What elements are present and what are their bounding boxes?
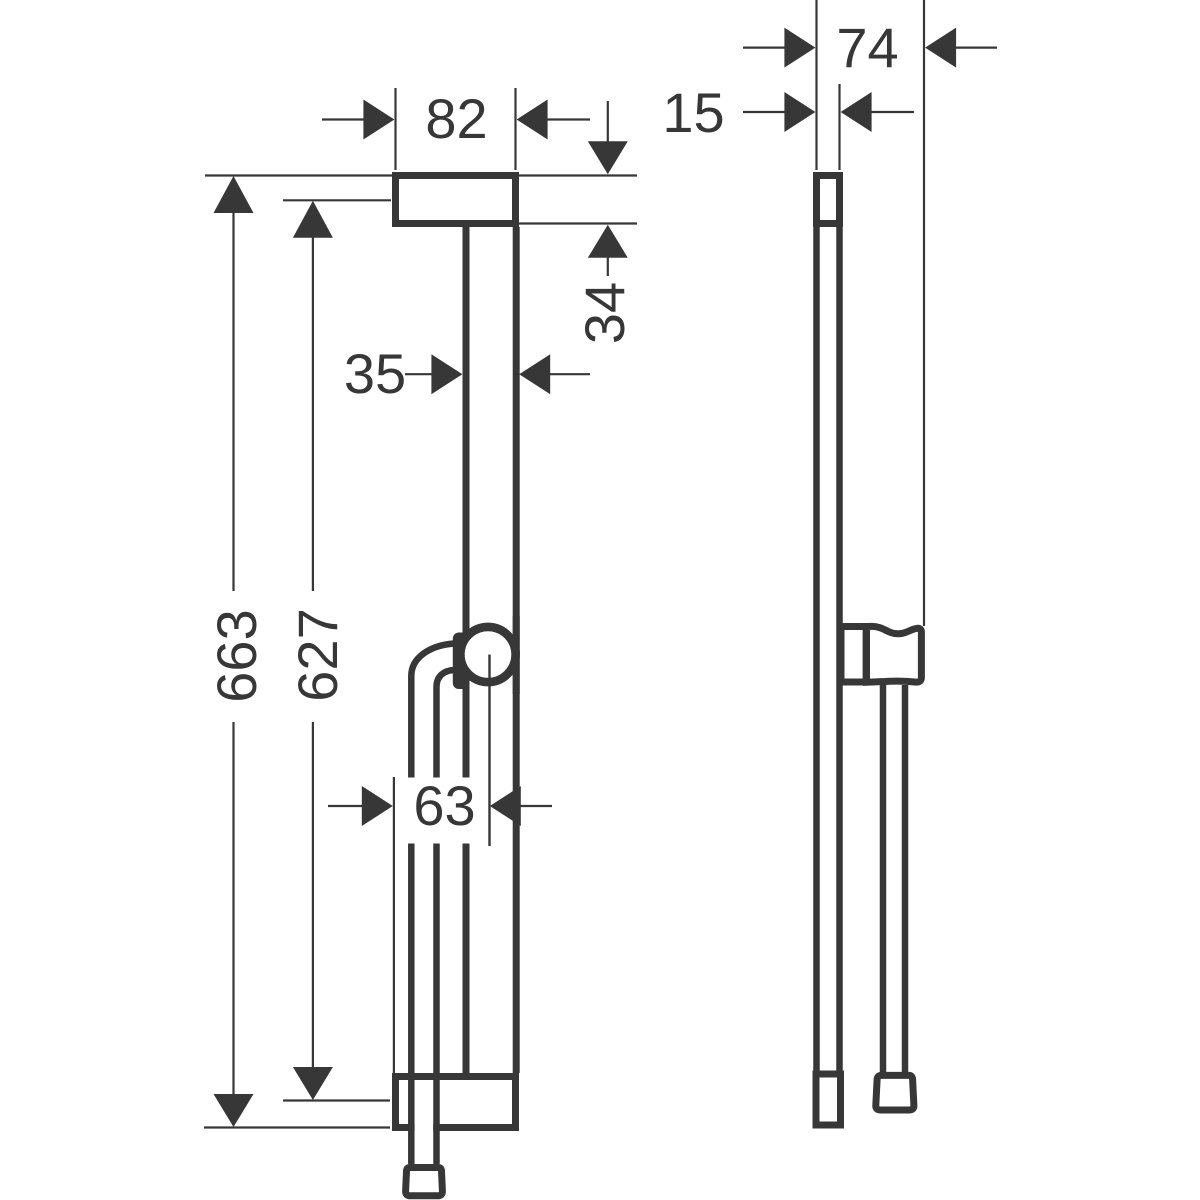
dim 63 extension left <box>393 777 395 1073</box>
svg-text:627: 627 <box>286 608 349 701</box>
rail left edge (front) <box>463 227 470 1073</box>
rail right edge over ring <box>513 616 520 694</box>
top bracket (side) <box>817 176 840 224</box>
svg-text:34: 34 <box>573 282 636 344</box>
dim 82 extension left <box>394 88 396 170</box>
dim 74 left arrow <box>743 46 787 48</box>
bottom bracket (side) <box>816 1074 841 1125</box>
bottom bracket (front) <box>396 1077 516 1128</box>
dim 663 extension top <box>205 174 392 176</box>
dim 82 extension right <box>514 88 516 170</box>
svg-text:82: 82 <box>425 87 487 150</box>
hose left wall (side) <box>880 685 887 1073</box>
hose outer wall (front) <box>411 644 454 1165</box>
dimension texts <box>205 16 899 837</box>
rail right edge (front) <box>513 227 520 1073</box>
dim 663 extension bottom <box>204 1126 390 1128</box>
bottom bracket top edge redrawn over hose <box>392 1073 519 1080</box>
svg-text:74: 74 <box>836 16 898 79</box>
slider clamp inner edge (side) <box>863 623 871 686</box>
dim 82 left arrow <box>322 118 366 120</box>
svg-text:63: 63 <box>413 774 475 837</box>
hose end connector (front) <box>406 1168 443 1196</box>
rail front face (side) <box>813 227 820 1071</box>
dim 34 bottom arrow <box>607 253 609 276</box>
hose end connector (side) <box>876 1075 914 1110</box>
hose right wall (side) <box>902 685 909 1073</box>
dim 63 right arrow <box>519 805 552 807</box>
dim 74 extension left <box>815 0 817 170</box>
slider clamp (front) <box>453 633 468 690</box>
dim 15 right arrow <box>869 111 914 113</box>
dim 35 left arrow <box>405 373 434 375</box>
dim 663 line and arrows <box>214 176 254 213</box>
slider clamp (side) <box>841 627 867 683</box>
dim 34 extension top <box>519 174 637 176</box>
handle centre line (front) <box>488 655 490 847</box>
dim 34 extension bottom <box>519 222 637 224</box>
front view: wall bar with slider and hose <box>396 176 517 1128</box>
dim 74 extension right <box>923 0 925 626</box>
dim 627 extension top <box>283 199 391 201</box>
dim 82 right arrow <box>545 118 590 120</box>
dim 63 left arrow <box>328 805 364 807</box>
top bracket (front) <box>396 176 516 224</box>
hose inner wall (front) <box>437 670 455 1164</box>
dim 627 line and arrows <box>293 201 333 238</box>
dim 34 top arrow <box>607 101 609 146</box>
slider handle (side) <box>867 626 922 682</box>
slider handle ring (front) <box>460 627 515 682</box>
dim 35 right arrow <box>548 373 590 375</box>
dim 74 extension mid <box>838 84 840 170</box>
side view: bar profile, slider, hose <box>816 176 841 1126</box>
rail back face (side) <box>836 227 843 1071</box>
dim 74 right arrow <box>953 46 997 48</box>
white gap in rails and hose for 63 dimension band <box>402 778 477 844</box>
dim 627 extension bottom <box>283 1099 390 1101</box>
hose (front): white tube body crossing bottom bracket <box>415 690 434 1164</box>
svg-text:663: 663 <box>205 609 268 702</box>
dimension graphics <box>204 0 997 1128</box>
svg-text:35: 35 <box>344 342 406 405</box>
svg-text:15: 15 <box>662 81 724 144</box>
dim 15 left arrow <box>743 111 787 113</box>
